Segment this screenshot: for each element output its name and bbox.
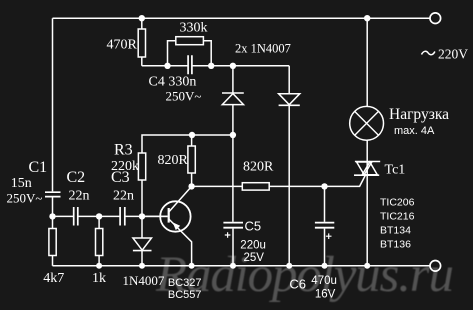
svg-text:TIC206: TIC206 [380, 197, 415, 209]
svg-text:TIC216: TIC216 [380, 211, 415, 223]
svg-text:22n: 22n [113, 189, 134, 204]
svg-text:22n: 22n [69, 189, 90, 204]
svg-text:220V: 220V [438, 47, 468, 62]
svg-text:BC327: BC327 [168, 277, 202, 289]
svg-text:1k: 1k [92, 271, 106, 286]
svg-text:4k7: 4k7 [43, 271, 64, 286]
svg-text:BC557: BC557 [168, 289, 202, 301]
svg-text:R3: R3 [114, 142, 133, 159]
svg-text:2x 1N4007: 2x 1N4007 [235, 42, 291, 56]
svg-text:C2: C2 [67, 169, 86, 186]
svg-text:max. 4A: max. 4A [394, 125, 435, 137]
svg-text:820R: 820R [158, 153, 189, 168]
svg-text:Нагрузка: Нагрузка [389, 106, 449, 123]
svg-text:C4 330n: C4 330n [149, 75, 197, 90]
svg-text:820R: 820R [243, 160, 274, 175]
svg-text:250V~: 250V~ [7, 191, 43, 206]
svg-text:Tc1: Tc1 [385, 163, 406, 178]
svg-text:16V: 16V [315, 289, 336, 301]
svg-text:1N4007: 1N4007 [123, 273, 165, 288]
svg-text:220u: 220u [240, 240, 266, 252]
svg-text:25V: 25V [244, 252, 265, 264]
svg-text:470u: 470u [311, 275, 337, 287]
svg-text:330k: 330k [180, 20, 208, 35]
svg-text:BT136: BT136 [380, 239, 411, 251]
svg-text:C6: C6 [289, 277, 306, 292]
svg-text:470R: 470R [107, 37, 138, 52]
svg-text:C1: C1 [29, 159, 48, 176]
svg-text:15n: 15n [11, 176, 32, 191]
svg-text:250V~: 250V~ [166, 89, 202, 104]
svg-text:220k: 220k [111, 159, 139, 174]
svg-text:BT134: BT134 [380, 225, 411, 237]
svg-text:C5: C5 [245, 219, 262, 234]
